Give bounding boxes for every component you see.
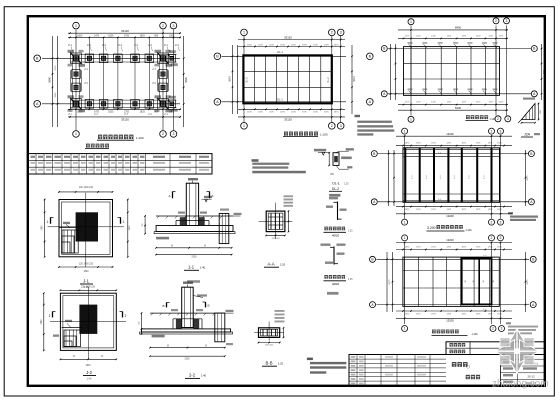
- svg-text:1:40: 1:40: [200, 266, 206, 270]
- svg-text:J-2: J-2: [86, 370, 92, 375]
- roof-level plan 1 joint marks: [409, 44, 413, 47]
- svg-text:Z-2: Z-2: [134, 44, 138, 47]
- svg-text:33120: 33120: [121, 29, 129, 33]
- ground beam plan bottom dimensions: [238, 108, 345, 110]
- level plan 2 bottom dimensions: [396, 206, 512, 208]
- stair detail dims: [538, 104, 540, 120]
- svg-text:DL-1: DL-1: [277, 50, 283, 54]
- svg-text:4575: 4575: [543, 69, 545, 75]
- section 1-1 ground line: [156, 215, 233, 217]
- rebar detail Z1: [337, 202, 339, 220]
- svg-text:2: 2: [49, 314, 51, 318]
- svg-text:DL-2: DL-2: [332, 187, 339, 191]
- section 1-1 column stem: [186, 183, 198, 225]
- column section A-A dimensions: [266, 234, 285, 236]
- svg-text:Z-1: Z-1: [164, 44, 168, 47]
- foundation plan footings left column: [72, 70, 81, 79]
- svg-text:1:100: 1:100: [472, 333, 479, 336]
- foundation plan caption: [98, 135, 102, 139]
- section 1-1 bedding: [154, 232, 235, 234]
- roof plan bottom dimensions: [396, 310, 512, 312]
- svg-text:3: 3: [340, 31, 342, 35]
- roof plan stair opening: [462, 258, 492, 304]
- svg-text:1: 1: [243, 124, 245, 128]
- svg-text:Z-2: Z-2: [87, 44, 91, 47]
- svg-text:2575: 2575: [55, 65, 57, 71]
- svg-text:1:40: 1:40: [87, 378, 92, 381]
- svg-text:1:20: 1:20: [278, 362, 284, 366]
- svg-text:2: 2: [331, 124, 333, 128]
- svg-text:2: 2: [492, 327, 494, 331]
- svg-text:2: 2: [125, 314, 127, 318]
- svg-text:1: 1: [404, 236, 406, 240]
- svg-text:1: 1: [75, 24, 77, 28]
- svg-text:1840: 1840: [129, 225, 131, 231]
- svg-text:1840: 1840: [83, 271, 89, 273]
- level plan 2 inner lines: [403, 155, 500, 157]
- svg-text:3065: 3065: [55, 92, 57, 98]
- footing detail J-2 crosshair: [87, 287, 89, 359]
- beam detail DL level mark: [314, 149, 326, 152]
- rebar detail Z1 label: [324, 227, 328, 231]
- foundation plan footings row B: [71, 53, 82, 64]
- svg-text:1: 1: [410, 118, 412, 122]
- svg-text:4Ø20: 4Ø20: [332, 233, 340, 237]
- roof-level plan 1 side dimensions: [395, 44, 397, 100]
- svg-text:3.200: 3.200: [427, 226, 436, 230]
- ground beam plan caption: [284, 132, 288, 136]
- svg-text:Z-2: Z-2: [102, 44, 106, 47]
- svg-text:1:100: 1:100: [136, 136, 144, 140]
- svg-text:1:100: 1:100: [320, 133, 328, 137]
- ground beam plan top dimensions: [238, 39, 345, 41]
- roof-level plan 1 bottom dimensions: [398, 104, 508, 106]
- section 2-2 footing slab: [142, 329, 231, 332]
- svg-text:1825: 1825: [108, 35, 114, 37]
- section 1-1 right level mark: [233, 215, 241, 217]
- svg-text:M: M: [171, 246, 173, 248]
- svg-text:zhulong.com: zhulong.com: [492, 378, 549, 389]
- svg-text:3: 3: [173, 24, 175, 28]
- footing detail J-1 outline: [59, 200, 113, 257]
- svg-text:3: 3: [173, 132, 175, 136]
- svg-text:Z-2: Z-2: [175, 44, 179, 47]
- foundation plan strip footing walls: [70, 54, 177, 56]
- svg-text:4575: 4575: [527, 175, 529, 181]
- level plan 2 circles: [402, 128, 408, 134]
- title block main cell: [452, 362, 457, 367]
- notes right of level plan 2: [508, 212, 513, 214]
- roof plan grid: [404, 257, 406, 306]
- section 1-1 footing steps: [176, 220, 209, 222]
- svg-text:5640: 5640: [185, 77, 188, 83]
- svg-text:A: A: [168, 194, 170, 198]
- roof-level plan 1 circles: [408, 19, 414, 25]
- svg-text:2300: 2300: [191, 257, 197, 259]
- footing detail J-1 step rebar: [59, 227, 78, 229]
- footing detail J-1 bottom dimension: [59, 266, 113, 268]
- svg-text:5640: 5640: [49, 77, 52, 83]
- foundation plan footings row A: [71, 99, 82, 110]
- foundation plan axis circles bottom: [73, 131, 80, 138]
- svg-text:B: B: [162, 304, 164, 308]
- svg-text:1: 1: [47, 220, 49, 224]
- notes block under ground beam plan: [355, 115, 361, 117]
- svg-text:3: 3: [500, 220, 502, 224]
- roof plan caption: [432, 330, 436, 334]
- section 1-1 bedding note: [156, 237, 169, 240]
- section 2-2 ground line: [150, 312, 225, 314]
- svg-text:1-1: 1-1: [188, 265, 195, 270]
- level plan 2 top dimensions: [396, 135, 512, 137]
- svg-text:3: 3: [501, 327, 503, 331]
- column section B-B dimensions: [259, 342, 280, 344]
- svg-text:2: 2: [162, 132, 164, 136]
- svg-text:1: 1: [404, 129, 406, 133]
- svg-text:13200: 13200: [446, 214, 454, 218]
- svg-text:5640: 5640: [229, 76, 232, 82]
- column section B-B crosshair: [254, 332, 284, 334]
- svg-text:5640: 5640: [353, 76, 356, 82]
- section 2-2 footing steps: [173, 318, 202, 320]
- svg-text:1:25: 1:25: [348, 231, 353, 233]
- svg-text:1840: 1840: [85, 365, 91, 367]
- svg-text:2300: 2300: [184, 358, 190, 360]
- svg-text:M: M: [204, 246, 206, 248]
- section 2-2 right level mark: [225, 312, 234, 314]
- section 2-2 bedding note: [152, 335, 165, 338]
- svg-text:1840: 1840: [41, 319, 43, 325]
- svg-text:1: 1: [243, 31, 245, 35]
- section 1-1 right pier: [219, 213, 229, 243]
- svg-text:8400: 8400: [455, 25, 461, 29]
- rebar detail Z2: [333, 247, 335, 265]
- beam detail DL left dim: [328, 153, 330, 166]
- roof-level plan 1 grid: [410, 47, 412, 96]
- notes block bottom middle: [307, 358, 313, 361]
- roof-level plan 1 top dimensions: [398, 29, 508, 31]
- svg-text:4575: 4575: [527, 279, 529, 285]
- svg-text:2: 2: [491, 129, 493, 133]
- title block outline: [349, 355, 545, 386]
- svg-text:13200: 13200: [446, 132, 454, 136]
- svg-text:DL-2: DL-2: [327, 77, 330, 83]
- roof plan circles: [402, 235, 408, 241]
- ground beam plan side dimensions: [232, 45, 234, 114]
- column section B-B annotations: [275, 310, 285, 312]
- roof-level plan 1 axis lines: [410, 26, 412, 116]
- svg-text:3: 3: [507, 117, 509, 121]
- beam detail DL section: [333, 153, 339, 166]
- svg-text:220 1400 220: 220 1400 220: [79, 187, 94, 189]
- beam detail DL leaders: [339, 150, 349, 152]
- svg-text:4575: 4575: [389, 279, 391, 285]
- foundation plan left dimensions: [52, 36, 54, 127]
- svg-text:250 250: 250 250: [265, 345, 274, 347]
- svg-text:4Ø20: 4Ø20: [332, 282, 340, 286]
- roof plan axis lines: [404, 242, 406, 324]
- section 2-2 left dimension: [141, 313, 143, 334]
- svg-text:1825: 1825: [140, 35, 146, 37]
- level plan 2 axis lines: [404, 135, 406, 219]
- svg-text:33120: 33120: [284, 118, 292, 122]
- svg-text:13200: 13200: [446, 238, 454, 242]
- svg-text:1:25: 1:25: [348, 279, 353, 281]
- footing detail J-1 crosshair: [85, 193, 87, 267]
- section 1-1 level mark: [205, 199, 208, 202]
- svg-text:1825: 1825: [108, 112, 114, 114]
- ground beam plan inner grid: [254, 55, 256, 103]
- svg-text:3: 3: [500, 129, 502, 133]
- stair detail triangle: [522, 104, 536, 120]
- svg-text:1000: 1000: [169, 35, 175, 37]
- svg-text:M: M: [73, 356, 75, 358]
- column section A-A: [266, 211, 285, 232]
- roof-level plan 1 outline: [404, 47, 500, 96]
- svg-text:2: 2: [491, 236, 493, 240]
- notes block middle: [252, 159, 259, 162]
- footing detail J-2 bottom dimension: [60, 358, 116, 360]
- foundation plan right corner clusters: [168, 54, 171, 57]
- footing detail J-1 left dimension: [44, 200, 46, 257]
- notes right of roof plan: [506, 322, 511, 324]
- footing detail J-2 section flags: [52, 312, 54, 318]
- svg-text:DL-1: DL-1: [332, 182, 339, 186]
- section 2-2 stem leader: [193, 296, 203, 298]
- section 1-1 section flags A: [172, 192, 174, 199]
- foundation plan axis lines: [75, 30, 77, 131]
- svg-text:1: 1: [404, 327, 406, 331]
- roof plan top dimensions: [396, 242, 512, 244]
- svg-text:Z-2: Z-2: [148, 44, 152, 47]
- svg-text:2: 2: [497, 117, 499, 121]
- svg-text:1840: 1840: [42, 225, 44, 231]
- svg-text:8400: 8400: [455, 106, 461, 110]
- section 2-2 bedding: [140, 332, 233, 334]
- ground beam plan outline: [243, 55, 331, 103]
- svg-text:2: 2: [162, 24, 164, 28]
- section 2-2 bottom dimensions: [150, 347, 225, 349]
- svg-text:1:20: 1:20: [280, 263, 286, 267]
- level plan 2 side dimensions: [393, 150, 395, 206]
- svg-text:A-A: A-A: [268, 262, 275, 267]
- ground beam plan axis lines: [243, 36, 245, 123]
- svg-text:Z-3: Z-3: [118, 44, 122, 47]
- svg-text:1:100: 1:100: [466, 229, 473, 232]
- foundation plan bottom dimensions: [68, 108, 181, 110]
- svg-text:2-2: 2-2: [189, 373, 196, 378]
- level plan 2 thick beams: [404, 148, 406, 203]
- rebar detail Z2 label: [324, 275, 328, 279]
- svg-text:33120: 33120: [284, 35, 292, 39]
- watermark compass logo: [495, 329, 539, 374]
- column section A-A crosshair: [259, 220, 293, 222]
- svg-text:1:40: 1:40: [201, 374, 207, 378]
- svg-text:1: 1: [75, 132, 77, 136]
- footing detail J-2 outline: [60, 293, 116, 350]
- svg-text:1475: 1475: [94, 35, 100, 37]
- svg-text:150 150: 150 150: [272, 238, 281, 240]
- title block right grid: [500, 355, 502, 386]
- section 1-1 left dimension: [144, 216, 146, 234]
- roof plan outline: [403, 257, 499, 306]
- svg-text:( ): ( ): [466, 365, 469, 369]
- column section B-B: [259, 328, 280, 338]
- svg-text:2: 2: [495, 19, 497, 23]
- svg-text:M: M: [101, 356, 103, 358]
- svg-text:1: 1: [123, 220, 125, 224]
- svg-text:1: 1: [404, 220, 406, 224]
- foundation plan axis circles top: [73, 22, 80, 29]
- svg-text:M: M: [167, 345, 169, 347]
- roof plan side dimensions: [392, 252, 394, 312]
- section 2-2 section flags B: [166, 303, 168, 308]
- section 1-1 footing slab: [156, 226, 233, 232]
- svg-text:2: 2: [331, 31, 333, 35]
- foundation size table title: [86, 144, 90, 148]
- svg-text:B-B: B-B: [266, 361, 273, 366]
- svg-text:220 1400 220: 220 1400 220: [79, 264, 94, 266]
- foundation plan footings right column: [159, 70, 168, 79]
- foundation plan axis circles left: [34, 55, 41, 62]
- level plan 2 outline: [403, 148, 500, 203]
- svg-text:M: M: [205, 345, 207, 347]
- section 2-2 right pier: [215, 313, 225, 342]
- svg-text:J-1: J-1: [83, 278, 89, 283]
- svg-text:1:25: 1:25: [344, 184, 349, 186]
- svg-text:B: B: [207, 304, 209, 308]
- section 2-2 column stem: [182, 287, 194, 327]
- svg-text:1650: 1650: [77, 35, 83, 37]
- footing detail J-1 right dimension: [127, 200, 129, 257]
- footing detail J-1 section flags: [50, 217, 52, 223]
- foundation plan top dimensions: [68, 32, 181, 34]
- svg-text:33120: 33120: [121, 118, 129, 122]
- footing detail J-2 column black: [79, 305, 97, 334]
- title block revision table: [349, 358, 446, 360]
- roof-level plan 1 caption: [466, 115, 470, 119]
- svg-text:13200: 13200: [446, 318, 454, 322]
- svg-text:Z-1: Z-1: [68, 44, 72, 47]
- svg-text:1825: 1825: [140, 112, 146, 114]
- footing detail J-1 column black: [76, 212, 98, 241]
- svg-text:3: 3: [500, 236, 502, 240]
- foundation plan corner anchor marks: [70, 52, 74, 56]
- svg-text:1:100: 1:100: [490, 118, 497, 121]
- svg-text:1: 1: [410, 20, 412, 24]
- column section A-A annotations: [284, 195, 294, 197]
- svg-text:J2A: J2A: [524, 133, 531, 137]
- section 1-1 bottom dimensions: [156, 247, 232, 249]
- footing detail J-2 left dimension: [43, 293, 45, 350]
- svg-text:DL-1: DL-1: [277, 97, 283, 101]
- svg-text:DL-2: DL-2: [246, 77, 249, 83]
- foundation plan right dimensions: [183, 36, 185, 127]
- ground beam plan circles: [241, 29, 248, 36]
- svg-text:2: 2: [491, 220, 493, 224]
- svg-text:3: 3: [506, 19, 508, 23]
- foundation size table: [29, 154, 213, 174]
- svg-text:2750: 2750: [124, 35, 130, 37]
- title block name rows: [446, 342, 545, 355]
- footing detail J-2 step rebar: [62, 327, 82, 329]
- svg-text:3: 3: [340, 124, 342, 128]
